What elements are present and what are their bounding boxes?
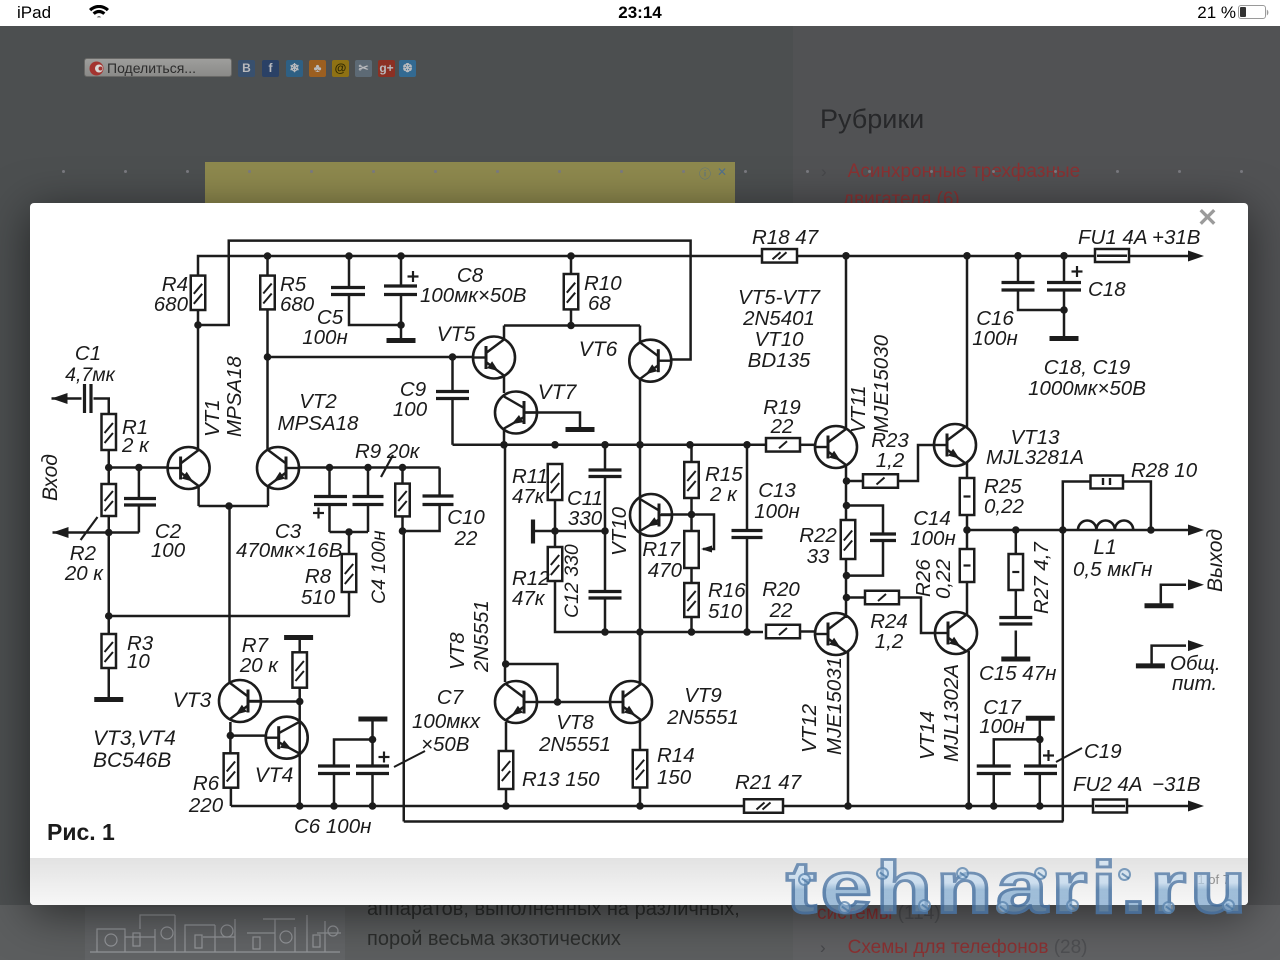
svg-text:R21 47: R21 47 xyxy=(735,771,803,794)
wire VT3 base to R7 xyxy=(248,700,300,703)
wire VT13 collector riser xyxy=(966,256,969,427)
capacitor C15 xyxy=(999,616,1032,619)
ground at C15 xyxy=(1001,657,1030,662)
wire VT5 VT6 collector link xyxy=(504,324,640,327)
node C8 rail junction xyxy=(397,252,405,260)
capacitor C8 xyxy=(384,284,417,287)
resistor R28 xyxy=(1091,476,1124,489)
capacitor C11 xyxy=(589,468,622,471)
node R15 R17 junction xyxy=(688,511,696,519)
svg-text:10: 10 xyxy=(127,650,150,673)
inductor L1 xyxy=(1078,520,1133,530)
wire VT5 emitter to VT7 xyxy=(503,375,506,393)
resistor R16 xyxy=(684,583,699,617)
svg-text:VT8: VT8 xyxy=(556,711,594,734)
wire C5 C8 bottom to ground xyxy=(349,295,401,326)
resistor R5 xyxy=(260,276,275,310)
node C14 bottom tap xyxy=(843,572,851,580)
wire R9 top stub xyxy=(401,468,404,484)
svg-text:+31В: +31В xyxy=(1152,226,1200,249)
ground at R3 xyxy=(94,697,123,702)
capacitor C13 xyxy=(732,529,763,532)
wire R15 top stub xyxy=(690,445,693,462)
wire C4 top lead xyxy=(367,468,370,497)
wire VT4 base lead xyxy=(230,734,266,737)
plus C18 xyxy=(1072,270,1083,272)
node VT2 collector junction xyxy=(264,353,272,361)
node R11 R12 junction xyxy=(551,527,559,535)
wire R8 top stub xyxy=(348,532,351,554)
svg-text:470: 470 xyxy=(648,559,683,582)
wire R17 top stub xyxy=(690,515,693,532)
wire VT6 emitter down xyxy=(639,378,642,445)
svg-text:0,5 мкГн: 0,5 мкГн xyxy=(1073,558,1152,581)
svg-text:VT7: VT7 xyxy=(538,381,578,404)
wire R2 top stub xyxy=(108,468,111,485)
ground for C16 C18 xyxy=(1050,336,1079,341)
wire R28 right loop xyxy=(1123,482,1151,531)
wire R23 right to VT13 base xyxy=(898,445,934,481)
wire VT4 chord xyxy=(298,702,301,807)
svg-text:510: 510 xyxy=(708,600,743,623)
transistor VT14 xyxy=(935,612,977,654)
svg-text:VT9: VT9 xyxy=(684,684,722,707)
wire VT6 collector stub xyxy=(639,326,642,344)
svg-text:1,2: 1,2 xyxy=(875,630,904,653)
node ground bus tap xyxy=(105,612,113,620)
wire input ground arm xyxy=(53,531,139,534)
wire positive rail +31V xyxy=(198,256,1189,276)
svg-text:C12 330: C12 330 xyxy=(561,544,583,618)
node R5 rail junction xyxy=(264,252,272,260)
wire VT12 emitter down xyxy=(847,651,850,806)
svg-text:MJL1302A: MJL1302A xyxy=(940,664,963,762)
svg-text:×50В: ×50В xyxy=(421,733,469,756)
svg-text:MJE15030: MJE15030 xyxy=(870,334,893,433)
svg-text:Вход: Вход xyxy=(39,454,62,501)
svg-text:R8: R8 xyxy=(305,565,332,588)
wire C16 bottom xyxy=(1018,290,1064,310)
wire R26 top stub xyxy=(966,530,969,549)
R17 wiper xyxy=(692,515,715,550)
svg-text:VT14: VT14 xyxy=(916,711,939,760)
node C6 bottom junction xyxy=(330,802,338,810)
plus C3 xyxy=(313,512,324,514)
wire VT9 collector stub xyxy=(639,632,642,685)
ground at VT7 xyxy=(566,427,595,432)
wire C11 bottom stub xyxy=(604,477,607,532)
node mirror base junction xyxy=(554,698,562,706)
plus C7 xyxy=(379,756,390,758)
node C3 top tap xyxy=(326,464,334,472)
svg-text:VT5-VT7: VT5-VT7 xyxy=(738,286,822,309)
node R10 rail junction xyxy=(567,252,575,260)
node C13 top junction xyxy=(743,441,751,449)
node C17 C19 top junction xyxy=(1036,736,1044,744)
wire VT1 collector line xyxy=(197,310,200,449)
node R13 bottom junction xyxy=(502,802,510,810)
wire output node rail xyxy=(967,529,1189,532)
wire R19 feed to VT11 base xyxy=(800,444,815,447)
svg-text:100н: 100н xyxy=(754,500,799,523)
wire C18 bottom stub xyxy=(1063,290,1066,336)
node VT4 emitter junction xyxy=(296,802,304,810)
transistor VT2 xyxy=(257,447,299,489)
wire VT12 collector stub xyxy=(845,617,848,620)
svg-text:MJL3281A: MJL3281A xyxy=(986,446,1084,469)
wire C5 top stub xyxy=(348,256,351,288)
node C17 bottom junction xyxy=(990,802,998,810)
ground for C5 C8 xyxy=(387,338,416,343)
svg-text:−31В: −31В xyxy=(1152,773,1200,796)
wire C2 bottom lead xyxy=(138,506,141,533)
svg-text:C4 100н: C4 100н xyxy=(368,530,390,604)
transistor VT11 xyxy=(815,426,857,468)
wire C17 bottom stub xyxy=(993,774,996,807)
svg-text:150: 150 xyxy=(657,766,692,789)
node R16 bottom junction xyxy=(688,628,696,636)
node VT14 emitter rail junction xyxy=(965,802,973,810)
resistor R3 xyxy=(102,634,117,668)
node R2 bottom junction xyxy=(105,529,113,537)
wire input node to VT1 base xyxy=(109,466,168,469)
svg-text:4,7мк: 4,7мк xyxy=(65,364,115,386)
wire VAS lower bus xyxy=(555,581,763,632)
node R7 bottom junction xyxy=(296,698,304,706)
wire C18 top stub xyxy=(1063,256,1066,283)
node VT3 emitter R6 junction xyxy=(227,732,235,740)
wire common supply xyxy=(1152,646,1186,664)
wire C3 C4 join xyxy=(330,531,369,534)
wire C14 bottom arm xyxy=(847,541,884,576)
wire R24 right to VT14 base xyxy=(899,598,935,634)
wire mid node xyxy=(535,530,605,533)
wire R26 bottom to VT14 collector xyxy=(966,582,969,616)
wire C12 top stub xyxy=(604,531,607,592)
transistor VT8 xyxy=(495,681,537,723)
node R9 C10 junction xyxy=(399,527,407,535)
wire R12 top stub xyxy=(554,531,557,547)
arrow common supply xyxy=(1188,640,1204,651)
resistor R18 xyxy=(762,249,797,262)
wire VT2 emitter lead xyxy=(267,485,270,506)
svg-text:2N5551: 2N5551 xyxy=(538,733,611,756)
resistor R7 xyxy=(292,652,307,687)
wire R25 bottom stub xyxy=(966,515,969,530)
resistor R19 xyxy=(766,438,800,452)
arrow +31V rail xyxy=(1188,251,1204,262)
transistor VT12 xyxy=(815,613,857,655)
svg-text:100: 100 xyxy=(151,539,186,562)
node C12 bottom junction xyxy=(601,628,609,636)
wire VT14 emitter down xyxy=(968,651,971,806)
fuse FU1 xyxy=(1095,249,1129,262)
wire VT10 chord xyxy=(639,445,642,685)
ground above R7 xyxy=(284,635,313,640)
wire VT2 collector to VT5 base xyxy=(268,356,474,359)
node R10 bottom junction xyxy=(567,322,575,330)
svg-text:0,22: 0,22 xyxy=(984,495,1024,518)
svg-text:R16: R16 xyxy=(708,579,746,602)
terminal bar mid node xyxy=(531,520,535,544)
node input node xyxy=(105,464,113,472)
wire input C1 left arrow xyxy=(52,397,82,400)
svg-text:22: 22 xyxy=(770,415,794,438)
svg-text:R28 10: R28 10 xyxy=(1131,459,1198,482)
svg-text:C1: C1 xyxy=(75,342,101,365)
wire R15 bottom stub xyxy=(690,498,693,515)
svg-text:BD135: BD135 xyxy=(748,349,811,372)
resistor R9 xyxy=(395,484,410,517)
wire R17 R16 link xyxy=(690,568,693,583)
svg-text:R9 20к: R9 20к xyxy=(355,440,421,463)
fuse FU2 xyxy=(1093,800,1127,813)
wire mirror collector-base link xyxy=(506,664,558,702)
svg-text:FU2 4A: FU2 4A xyxy=(1073,773,1143,796)
wire tail current to VT3 collector xyxy=(228,506,231,682)
wire C14 top arm xyxy=(847,506,884,535)
wire feedback takeoff down xyxy=(403,531,406,822)
svg-text:1,2: 1,2 xyxy=(876,449,905,472)
wire C9 bottom stub xyxy=(451,399,454,445)
svg-text:R17: R17 xyxy=(642,538,681,561)
svg-text:68: 68 xyxy=(588,292,611,315)
transistor VT3 xyxy=(219,680,261,722)
wire C16 top stub xyxy=(1017,256,1020,283)
node R11 top junction xyxy=(551,441,559,449)
node C13 bottom junction xyxy=(743,628,751,636)
capacitor C12 xyxy=(589,590,622,593)
wire C6 bottom stub xyxy=(333,774,336,807)
svg-text:VT3,VT4: VT3,VT4 xyxy=(93,727,176,750)
wire C19 top stub xyxy=(1039,721,1042,766)
svg-text:C19: C19 xyxy=(1084,740,1122,763)
transistor VT1 xyxy=(168,447,210,489)
wire C3 top lead xyxy=(328,468,331,497)
svg-text:C7: C7 xyxy=(437,686,465,709)
node R15 top junction xyxy=(686,441,694,449)
node C9 top junction xyxy=(449,353,457,361)
node VT12 emitter rail junction xyxy=(844,802,852,810)
svg-text:пит.: пит. xyxy=(1172,672,1217,695)
wire C2 top lead xyxy=(138,468,141,499)
wire C13 riser xyxy=(746,445,749,531)
resistor R4 xyxy=(191,276,206,310)
wire R20 to VT12 base xyxy=(800,630,815,633)
wire VT2 base feed xyxy=(299,466,440,469)
svg-text:R27 4,7: R27 4,7 xyxy=(1030,541,1053,614)
node C11 top junction xyxy=(601,441,609,449)
svg-text:2N5551: 2N5551 xyxy=(470,600,493,673)
capacitor C1 xyxy=(83,384,86,413)
ground above C17 C19 xyxy=(1026,716,1055,721)
wire C7 top stub xyxy=(371,721,374,766)
node R14 bottom junction xyxy=(636,802,644,810)
ground above C6 C7 xyxy=(358,717,387,722)
resistor R14 xyxy=(633,750,648,788)
svg-text:20 к: 20 к xyxy=(64,562,104,585)
C7 pointer xyxy=(394,751,425,767)
transistor VT4 xyxy=(266,717,308,759)
capacitor C18 xyxy=(1047,281,1081,284)
svg-text:22: 22 xyxy=(454,527,478,550)
wire C10 bottom arm xyxy=(403,505,440,532)
svg-text:C18: C18 xyxy=(1088,278,1126,301)
ground speaker return xyxy=(1145,603,1174,608)
resistor R24 xyxy=(865,591,899,605)
node VT11 collector rail junction xyxy=(842,252,850,260)
node R24 tap xyxy=(843,594,851,602)
wire R5 bottom / VT2 collector xyxy=(266,309,269,449)
node R25 R26 output junction xyxy=(963,526,971,534)
wire R24 left lead xyxy=(847,596,866,599)
wire VT8 collector riser xyxy=(504,445,507,682)
node C5 rail junction xyxy=(345,252,353,260)
svg-text:C18, C19: C18, C19 xyxy=(1044,356,1131,379)
wire R3 bottom stub xyxy=(108,668,111,697)
wire C1 to R1 xyxy=(94,399,109,415)
node C7 bottom junction xyxy=(369,802,377,810)
node C19 bottom junction xyxy=(1036,802,1044,810)
node L1 left junction xyxy=(1059,526,1067,534)
plus C8 xyxy=(408,275,419,277)
node VT8 collector mirror tap xyxy=(502,660,510,668)
svg-text:VT2: VT2 xyxy=(299,390,337,413)
capacitor C2 xyxy=(124,497,156,500)
svg-text:2N5551: 2N5551 xyxy=(666,706,739,729)
R2 wiper slash xyxy=(81,517,98,540)
svg-text:Выход: Выход xyxy=(1204,529,1227,592)
resistor R15 xyxy=(684,462,699,498)
wire C3 bottom lead xyxy=(328,505,331,532)
arrow -31V rail xyxy=(1188,801,1204,812)
svg-text:MPSA18: MPSA18 xyxy=(278,412,359,435)
wire VAS input bus xyxy=(453,444,767,447)
svg-text:R22: R22 xyxy=(799,524,837,547)
wire R28 loop xyxy=(1063,482,1091,531)
svg-text:47к: 47к xyxy=(512,587,546,610)
resistor R10 xyxy=(564,274,579,309)
wire R14 bottom lead xyxy=(639,788,642,807)
svg-text:L1: L1 xyxy=(1093,536,1116,559)
svg-text:C10: C10 xyxy=(447,506,485,529)
wire R18 rail left xyxy=(761,255,764,258)
wire C12 bottom stub xyxy=(604,598,607,632)
svg-text:MJE15031: MJE15031 xyxy=(823,657,846,755)
resistor R27 xyxy=(1009,554,1024,590)
svg-text:VT11: VT11 xyxy=(847,386,870,433)
svg-text:R13 150: R13 150 xyxy=(522,768,600,791)
wire C8 bottom stub xyxy=(400,295,403,339)
trimmer R17 xyxy=(684,531,699,568)
node C4 top tap xyxy=(364,464,372,472)
svg-text:FU1 4A: FU1 4A xyxy=(1078,226,1148,249)
svg-text:100н: 100н xyxy=(910,527,955,550)
svg-text:220: 220 xyxy=(188,794,224,817)
node C2 top tap xyxy=(135,464,143,472)
wire top feedback line VT1 collector to VT6 base xyxy=(198,241,691,360)
resistor R11 xyxy=(548,464,563,500)
arrow speaker return xyxy=(1188,579,1204,590)
transistor VT9 xyxy=(610,681,652,723)
svg-text:100н: 100н xyxy=(302,326,347,349)
capacitor C14 xyxy=(870,532,896,535)
transistor VT7 xyxy=(495,392,537,434)
capacitor C7 xyxy=(356,764,389,767)
wire R6 bottom stub xyxy=(230,788,233,806)
resistor R25 xyxy=(960,478,975,515)
wire VT10 base lead xyxy=(661,513,692,516)
wire VT9 emitter stub xyxy=(639,722,642,750)
wire feedback riser at output xyxy=(1062,530,1065,822)
wire C13 lower xyxy=(746,538,749,633)
resistor R21 xyxy=(744,799,783,813)
svg-text:510: 510 xyxy=(301,586,336,609)
wire R10 top stub xyxy=(570,256,573,274)
wire VT1 emitter lead xyxy=(197,485,200,506)
svg-text:MPSA18: MPSA18 xyxy=(223,356,246,437)
wire feedback bottom rail xyxy=(404,820,1064,823)
node R9 top tap xyxy=(399,464,407,472)
transistor VT6 xyxy=(629,340,671,382)
svg-text:VT3: VT3 xyxy=(173,689,212,712)
svg-text:C6 100н: C6 100н xyxy=(294,815,371,838)
capacitor C3 xyxy=(314,495,347,498)
node VT13 collector rail junction xyxy=(963,252,971,260)
svg-text:100н: 100н xyxy=(972,327,1017,350)
node C16 rail junction xyxy=(1014,252,1022,260)
wire R9 bottom stub xyxy=(401,516,404,531)
transistor VT5 xyxy=(473,337,515,379)
node C18 rail junction xyxy=(1060,252,1068,260)
svg-text:VT4: VT4 xyxy=(255,764,294,787)
svg-text:VT1: VT1 xyxy=(201,399,224,437)
resistor R26 xyxy=(960,549,975,582)
wire VT11 emitter chain xyxy=(845,465,848,618)
node C16 C18 ground junction xyxy=(1060,306,1068,314)
svg-text:470мк×16В: 470мк×16В xyxy=(236,539,342,562)
svg-text:20 к: 20 к xyxy=(239,654,279,677)
transistor VT13 xyxy=(934,424,976,466)
wire down to R3 xyxy=(108,533,111,635)
node L1 right junction xyxy=(1147,526,1155,534)
node C5 C8 ground junction xyxy=(397,321,405,329)
wire C19 bottom stub xyxy=(1039,774,1042,807)
wire R8 bottom stub xyxy=(348,592,351,616)
node R23 tap xyxy=(843,477,851,485)
wire R2 bottom stub xyxy=(108,516,111,533)
wire VT11 collector riser xyxy=(845,256,848,429)
svg-text:VT10: VT10 xyxy=(608,506,631,556)
wire negative rail -31V xyxy=(231,805,1189,808)
wire emitter coupling bar xyxy=(199,505,268,508)
svg-text:VT8: VT8 xyxy=(446,632,469,670)
wire R7 top stub xyxy=(298,640,301,652)
arrow output xyxy=(1188,525,1204,536)
ground common supply xyxy=(1136,663,1165,668)
wire VT7 emitter down to VAS node xyxy=(503,430,506,445)
node R27 top junction xyxy=(1012,526,1020,534)
wire R10 bottom stub xyxy=(570,309,573,325)
wire C15 bottom stem xyxy=(1015,631,1018,657)
wire R27 top stub xyxy=(1015,530,1018,554)
C19 pointer xyxy=(1056,748,1082,762)
resistor R20 xyxy=(766,625,800,639)
svg-text:BC546В: BC546В xyxy=(93,749,171,772)
node C11 C12 junction xyxy=(601,527,609,535)
capacitor C19 xyxy=(1024,764,1057,767)
svg-text:R14: R14 xyxy=(657,744,695,767)
